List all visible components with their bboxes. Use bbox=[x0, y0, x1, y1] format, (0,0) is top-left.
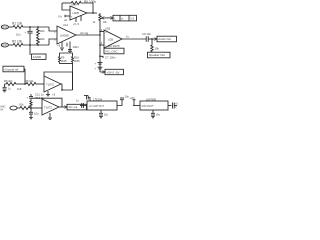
svg-text:CN2: CN2 bbox=[2, 43, 8, 47]
wire feedback right bbox=[72, 72, 74, 90]
svg-text:R2 10k: R2 10k bbox=[12, 40, 23, 44]
svg-text:RC_OSC: RC_OSC bbox=[106, 49, 118, 53]
svg-text:AC out: AC out bbox=[69, 105, 78, 109]
signal bus wire bbox=[99, 21, 101, 72]
svg-text:LM35: LM35 bbox=[73, 11, 80, 15]
svg-text:+: + bbox=[71, 15, 73, 19]
svg-text:1u: 1u bbox=[126, 35, 129, 39]
feedback resistor R13 vertical bbox=[30, 99, 32, 108]
wire bottom of splitter bbox=[60, 62, 73, 63]
capacitor C12 stub bbox=[84, 95, 88, 97]
junction dot bbox=[29, 44, 30, 45]
net stub C out bbox=[100, 56, 103, 58]
ground below U1 bbox=[60, 47, 64, 49]
svg-text:L: L bbox=[114, 17, 116, 21]
svg-text:LT1054: LT1054 bbox=[93, 98, 103, 102]
label box Line Out bbox=[113, 15, 137, 21]
svg-text:TL072: TL072 bbox=[44, 106, 52, 110]
label box below U3 bbox=[104, 48, 124, 54]
svg-text:R5 4k7: R5 4k7 bbox=[4, 79, 13, 83]
svg-text:in: in bbox=[121, 17, 124, 21]
svg-text:+V CAP OUT: +V CAP OUT bbox=[89, 104, 105, 108]
resistor R2 bbox=[13, 43, 23, 46]
svg-text:U1A: U1A bbox=[63, 23, 68, 27]
junction dot bbox=[99, 31, 100, 32]
svg-text:C8 10u: C8 10u bbox=[142, 32, 151, 36]
svg-text:10k: 10k bbox=[19, 103, 24, 107]
bottom stub M1 bbox=[100, 110, 102, 113]
wire bbox=[30, 114, 32, 117]
svg-text:1k: 1k bbox=[93, 20, 96, 24]
wire bbox=[62, 3, 70, 10]
svg-text:2k05: 2k05 bbox=[74, 59, 80, 63]
svg-text:+: + bbox=[25, 30, 27, 34]
arrow to AC out bbox=[64, 106, 67, 108]
svg-text:-: - bbox=[105, 44, 106, 47]
junction dot bbox=[30, 107, 31, 108]
wire jog to U1 noninverting bbox=[49, 39, 57, 45]
op-amp U1 bbox=[57, 26, 76, 44]
wire inverting input U3 bbox=[100, 44, 104, 46]
left pin wire M1 bbox=[80, 105, 87, 107]
resistor R7 vertical bbox=[59, 57, 61, 63]
junction dot bbox=[92, 12, 93, 13]
label box AC out bbox=[67, 104, 87, 110]
power stub U1 bbox=[66, 43, 68, 47]
svg-text:+: + bbox=[95, 62, 97, 66]
right pin wire M2 bbox=[168, 105, 172, 107]
svg-text:+: + bbox=[27, 96, 29, 100]
svg-text:3.5: 3.5 bbox=[130, 17, 135, 21]
wire to U4 bbox=[36, 83, 44, 85]
svg-text:MC 33078: MC 33078 bbox=[108, 45, 120, 48]
wire noninverting input U2 bbox=[65, 15, 70, 17]
wire down from output node bbox=[151, 39, 153, 45]
module box M2 bbox=[140, 101, 168, 110]
arrow to supply label bbox=[100, 71, 103, 73]
wire from ground box bbox=[24, 69, 25, 84]
wire top of splitter bbox=[60, 53, 73, 57]
capacitor C2 bbox=[68, 49, 72, 51]
svg-text:IN: IN bbox=[1, 108, 4, 112]
connector J1 bbox=[1, 25, 8, 29]
junction dot bbox=[151, 38, 152, 39]
ground below U5 bbox=[49, 113, 51, 118]
svg-text:+5V 0 -5V: +5V 0 -5V bbox=[107, 70, 120, 74]
svg-text:20k: 20k bbox=[40, 29, 45, 33]
wire bbox=[23, 26, 49, 28]
junction dot bbox=[99, 44, 100, 45]
power stub 2 U2 bbox=[80, 16, 82, 22]
svg-text:1k8: 1k8 bbox=[17, 87, 22, 91]
svg-text:10k: 10k bbox=[103, 20, 108, 24]
resistor R11 bbox=[26, 82, 36, 85]
arrow to output jack bbox=[105, 17, 111, 19]
svg-text:1%: 1% bbox=[58, 14, 62, 18]
svg-text:+5 -5: +5 -5 bbox=[73, 22, 80, 26]
capacitor C9 bbox=[3, 86, 7, 88]
svg-text:U1B: U1B bbox=[105, 27, 110, 31]
junction dot bbox=[37, 44, 38, 45]
svg-text:TL072: TL072 bbox=[46, 83, 54, 87]
svg-text:R6 10k: R6 10k bbox=[25, 79, 34, 83]
resistor R12 bbox=[20, 106, 30, 109]
svg-text:10u: 10u bbox=[104, 114, 109, 117]
svg-text:2k05: 2k05 bbox=[61, 59, 67, 63]
svg-text:R10: R10 bbox=[74, 56, 79, 60]
op-amp U4 bbox=[44, 76, 61, 92]
svg-text:2: 2 bbox=[54, 30, 56, 34]
svg-text:+9V: +9V bbox=[130, 96, 135, 100]
svg-text:VIN VOUT: VIN VOUT bbox=[142, 104, 155, 108]
svg-text:U2B: U2B bbox=[108, 38, 113, 42]
ground label box bbox=[3, 66, 24, 72]
wire down from splitter bbox=[72, 63, 74, 90]
svg-text:R1 10k: R1 10k bbox=[12, 22, 23, 26]
resistor R8 vertical bbox=[72, 57, 74, 63]
junction dot bbox=[37, 26, 38, 27]
svg-text:CN1: CN1 bbox=[2, 25, 8, 29]
capacitor C13 bbox=[81, 103, 83, 108]
capacitor C14 bbox=[172, 103, 174, 109]
wire bbox=[30, 107, 42, 109]
svg-text:10u: 10u bbox=[16, 33, 21, 37]
wire bbox=[148, 38, 154, 40]
op-amp U5 bbox=[42, 99, 59, 115]
feedback wire U4 bbox=[44, 72, 73, 76]
wire output U2 bbox=[87, 12, 97, 14]
resistor R3 vertical bbox=[37, 27, 40, 36]
label box Audio Out bbox=[157, 36, 177, 42]
op-amp U3 bbox=[104, 30, 122, 48]
svg-text:+5: +5 bbox=[57, 44, 61, 48]
bottom stub M2 bbox=[152, 110, 154, 113]
junction dot bbox=[24, 83, 25, 84]
capacitor C6 polarized bbox=[98, 61, 103, 63]
svg-text:Audio Out: Audio Out bbox=[158, 37, 171, 41]
resistor R6 bbox=[71, 1, 81, 4]
left pin wire M2 bbox=[133, 105, 140, 107]
wire bbox=[81, 3, 93, 13]
wire junction down bbox=[30, 108, 32, 112]
resistor R4 vertical bbox=[37, 36, 40, 45]
svg-text:LM358: LM358 bbox=[60, 33, 69, 37]
wire noninverting input U3 bbox=[100, 31, 104, 33]
wire bbox=[8, 26, 13, 28]
wire bbox=[8, 44, 13, 46]
junction dot bbox=[29, 26, 30, 27]
wire output U1 bbox=[76, 34, 100, 36]
connector J2 bbox=[1, 43, 8, 47]
svg-text:+5: +5 bbox=[52, 93, 56, 97]
capacitor C10 bbox=[29, 111, 33, 113]
svg-text:20k: 20k bbox=[40, 37, 45, 41]
capacitor C1 bbox=[29, 27, 31, 31]
svg-text:V: V bbox=[175, 106, 177, 109]
wire output U5 bbox=[59, 106, 65, 108]
junction dot bbox=[61, 89, 62, 90]
svg-text:10u: 10u bbox=[156, 114, 161, 117]
wire with cap stub left bbox=[4, 84, 6, 87]
svg-text:3: 3 bbox=[54, 38, 56, 42]
svg-text:C7 100n: C7 100n bbox=[105, 56, 116, 60]
power stub U2 bbox=[75, 18, 77, 23]
svg-text:R9: R9 bbox=[61, 56, 65, 60]
capacitor C8 output coupling bbox=[145, 36, 147, 42]
wire feedback top of U2 bbox=[62, 2, 71, 4]
capacitor C7 polarized bbox=[98, 66, 103, 68]
wire stub below U1 bbox=[61, 42, 63, 47]
svg-text:10u: 10u bbox=[34, 112, 39, 116]
svg-text:AC sig: AC sig bbox=[80, 31, 89, 35]
svg-text:1u: 1u bbox=[8, 87, 11, 91]
right pin wire M1 bbox=[117, 100, 122, 106]
svg-text:1u: 1u bbox=[76, 99, 79, 103]
wire output U3 bbox=[122, 38, 146, 40]
svg-text:+: + bbox=[95, 66, 97, 70]
module box M1 bbox=[87, 101, 117, 110]
wire jog to U1 inverting bbox=[49, 27, 57, 31]
connector MIC bbox=[10, 106, 17, 110]
power flag +9V bbox=[133, 100, 135, 106]
potentiometer RV1 bbox=[99, 13, 101, 22]
svg-text:10k: 10k bbox=[155, 47, 160, 51]
wire bbox=[17, 107, 20, 109]
wire bbox=[23, 44, 49, 46]
wire bbox=[16, 83, 26, 85]
svg-text:-: - bbox=[71, 9, 72, 13]
wire output U4 to feedback bottom bbox=[61, 84, 73, 90]
svg-text:R6 100k: R6 100k bbox=[84, 0, 96, 4]
ground bbox=[29, 117, 33, 119]
ground bbox=[3, 90, 7, 92]
wire stub to rail splitter bbox=[69, 42, 71, 54]
resistor R9 vertical bbox=[151, 45, 153, 53]
net stub label box bbox=[29, 45, 31, 55]
feedback wire U5 bbox=[30, 97, 32, 99]
arrow to audio out bbox=[154, 38, 157, 40]
svg-text:Ground ref: Ground ref bbox=[5, 67, 19, 71]
resistor R1 bbox=[13, 25, 23, 28]
svg-text:Speaker Out: Speaker Out bbox=[149, 53, 165, 57]
svg-text:100n: 100n bbox=[73, 45, 80, 49]
junction dot bbox=[99, 34, 100, 35]
svg-text:U2A: U2A bbox=[71, 3, 77, 7]
resistor R10 bbox=[5, 82, 16, 85]
svg-text:ref: ref bbox=[64, 18, 67, 22]
op-amp U2 bbox=[70, 6, 87, 20]
svg-text:R13 1k: R13 1k bbox=[35, 96, 44, 100]
junction dot bbox=[99, 56, 100, 57]
label box supply bbox=[105, 69, 124, 74]
svg-text:LM7805: LM7805 bbox=[146, 98, 157, 102]
svg-text:AGND: AGND bbox=[33, 55, 41, 59]
label box below R9 bbox=[148, 52, 171, 58]
ground below U4 bbox=[47, 91, 49, 94]
